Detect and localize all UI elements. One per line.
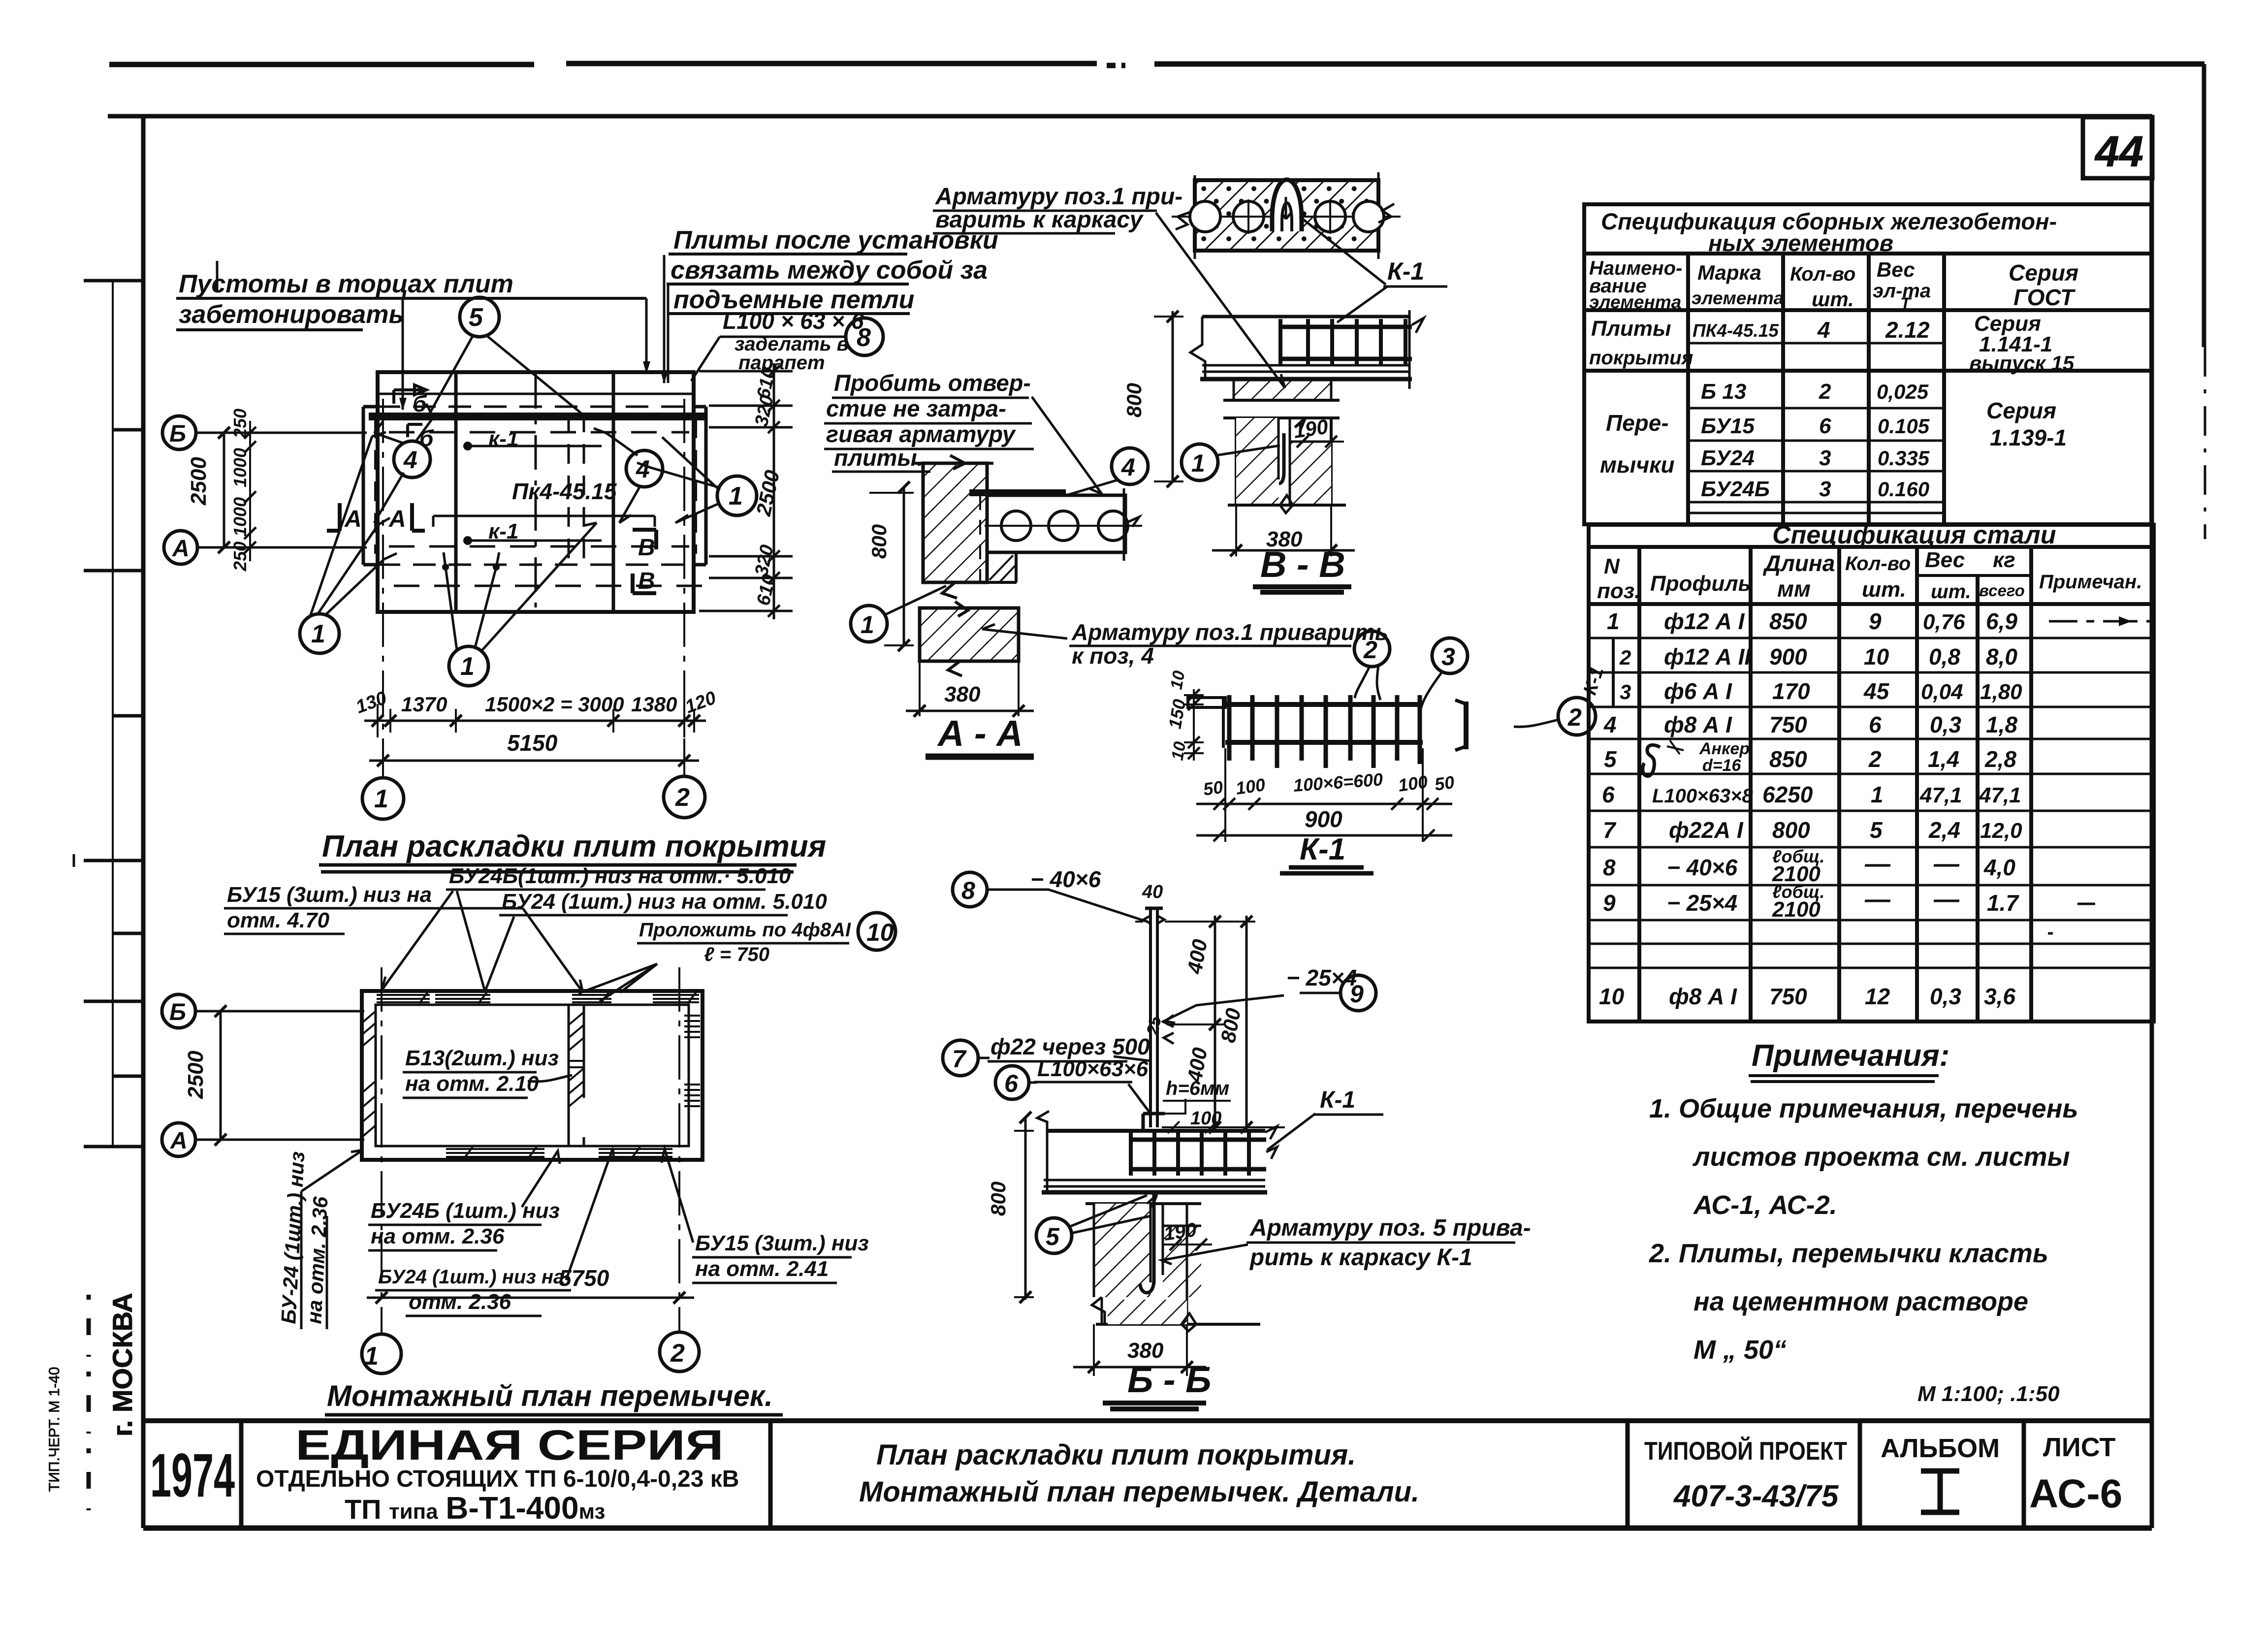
svg-text:1,4: 1,4 bbox=[1928, 746, 1959, 772]
svg-text:− 25×4: − 25×4 bbox=[1286, 965, 1357, 990]
circle 8 + leader bbox=[953, 872, 987, 907]
svg-text:ЛИСТ: ЛИСТ bbox=[2043, 1433, 2115, 1462]
DETK1 : reinforcement cage К-1 bbox=[1184, 631, 1596, 842]
left grid circles bbox=[162, 994, 195, 1028]
svg-text:5: 5 bbox=[469, 303, 483, 332]
svg-text:мм: мм bbox=[1777, 576, 1811, 602]
svg-text:1: 1 bbox=[1871, 782, 1884, 807]
svg-text:Б13(2шт.) низ: Б13(2шт.) низ bbox=[405, 1046, 559, 1070]
T profile section bbox=[1464, 702, 1469, 749]
dimension row 1 bbox=[364, 720, 706, 722]
svg-text:1: 1 bbox=[729, 482, 743, 511]
svg-text:ф8 А I: ф8 А I bbox=[1664, 712, 1732, 737]
slab with cores bbox=[969, 489, 1066, 496]
svg-text:ных элементов: ных элементов bbox=[1708, 230, 1893, 256]
left angle end bbox=[1188, 698, 1225, 748]
svg-text:2100: 2100 bbox=[1772, 897, 1821, 922]
svg-text:7: 7 bbox=[952, 1045, 967, 1073]
svg-text:2. Плиты, перемычки класть: 2. Плиты, перемычки класть bbox=[1649, 1239, 2048, 1268]
heavy angle line L100x63x6 bbox=[369, 413, 706, 420]
grid axis verticals bbox=[381, 967, 383, 1333]
extra small marks near fold line bbox=[74, 261, 217, 867]
svg-text:Профиль: Профиль bbox=[1650, 572, 1751, 596]
svg-text:шт.: шт. bbox=[1862, 577, 1906, 602]
svg-text:4: 4 bbox=[636, 455, 650, 483]
190 dim bbox=[1163, 1244, 1212, 1245]
PLAN2TEXT bbox=[169, 864, 895, 1371]
svg-text:12: 12 bbox=[1865, 984, 1890, 1009]
svg-text:1000: 1000 bbox=[230, 448, 250, 487]
lower wall hatched bbox=[920, 608, 1019, 661]
PLAN1TEXT bbox=[169, 226, 998, 872]
svg-text:К-1: К-1 bbox=[1320, 1087, 1355, 1113]
svg-text:Монтажный план перемычек.: Монтажный план перемычек. bbox=[327, 1379, 773, 1412]
380 dim bbox=[920, 661, 1019, 716]
svg-text:900: 900 bbox=[1769, 644, 1807, 670]
svg-text:45: 45 bbox=[1863, 678, 1890, 704]
svg-text:БУ24Б (1шт.) низ: БУ24Б (1шт.) низ bbox=[371, 1199, 560, 1223]
svg-text:Арматуру поз. 5 прива-: Арматуру поз. 5 прива- bbox=[1249, 1215, 1531, 1241]
svg-text:407-3-43/75: 407-3-43/75 bbox=[1673, 1479, 1839, 1513]
svg-text:мычки: мычки bbox=[1600, 452, 1675, 478]
svg-text:связать между собой за: связать между собой за bbox=[671, 256, 988, 285]
svg-text:250: 250 bbox=[230, 409, 250, 439]
svg-text:Спецификация стали: Спецификация стали bbox=[1772, 521, 2056, 549]
svg-text:Монтажный план перемычек. Д: Монтажный план перемычек. Детали. bbox=[859, 1476, 1419, 1508]
svg-text:А - А: А - А bbox=[937, 713, 1023, 754]
svg-text:Длина: Длина bbox=[1762, 550, 1835, 576]
svg-text:Т: Т bbox=[1900, 294, 1912, 313]
svg-text:Б - Б: Б - Б bbox=[1127, 1359, 1212, 1400]
svg-text:1: 1 bbox=[1191, 449, 1205, 477]
parapet post bbox=[1150, 908, 1157, 1127]
svg-text:44: 44 bbox=[2094, 127, 2143, 176]
svg-text:на отм. 2.41: на отм. 2.41 bbox=[695, 1257, 829, 1281]
svg-text:Б: Б bbox=[169, 999, 186, 1025]
lintel groups top band bbox=[377, 995, 430, 1002]
svg-text:L100×63×6: L100×63×6 bbox=[1037, 1057, 1149, 1081]
svg-text:БУ24: БУ24 bbox=[1701, 446, 1755, 470]
svg-text:БУ15: БУ15 bbox=[1701, 414, 1755, 438]
svg-text:кг: кг bbox=[1993, 548, 2015, 572]
svg-text:50: 50 bbox=[1433, 772, 1455, 795]
svg-text:1. Общие примечания, переч: 1. Общие примечания, перечень bbox=[1649, 1094, 2078, 1123]
svg-text:250: 250 bbox=[230, 542, 250, 572]
circles bbox=[1354, 631, 1390, 667]
svg-text:6: 6 bbox=[1004, 1070, 1019, 1097]
inner dashed lines bbox=[389, 431, 689, 434]
PANELBAND bbox=[0, 0, 0, 0]
PLAN1 : План раскладки плит покрытия bbox=[162, 255, 883, 819]
patch below slab bbox=[987, 552, 1017, 582]
wall outline (partly dashed) bbox=[363, 407, 706, 565]
svg-text:Проложить по 4ф8АI: Проложить по 4ф8АI bbox=[639, 919, 851, 941]
wall bottom bbox=[1228, 504, 1346, 507]
svg-text:ЕДИНАЯ СЕРИЯ: ЕДИНАЯ СЕРИЯ bbox=[295, 1422, 724, 1469]
weld mark leader h=6mm bbox=[1157, 1099, 1185, 1114]
svg-text:2500: 2500 bbox=[184, 1051, 208, 1099]
grid axis dash-dot verticals bbox=[382, 399, 384, 778]
svg-text:А: А bbox=[344, 506, 362, 532]
svg-text:А: А bbox=[172, 536, 190, 562]
svg-text:5: 5 bbox=[1870, 817, 1883, 843]
circle 7 + leader bbox=[943, 1040, 978, 1076]
svg-text:0.160: 0.160 bbox=[1878, 478, 1929, 501]
svg-text:47,1: 47,1 bbox=[1979, 783, 2021, 807]
svg-text:отм. 4.70: отм. 4.70 bbox=[227, 908, 330, 932]
svg-text:ТИП.ЧЕРТ. М 1-40: ТИП.ЧЕРТ. М 1-40 bbox=[46, 1367, 63, 1492]
-25x4 bar leader + circle 9 bbox=[1341, 975, 1376, 1011]
svg-text:100: 100 bbox=[1234, 774, 1266, 798]
svg-text:380: 380 bbox=[944, 682, 981, 706]
svg-text:2: 2 bbox=[675, 783, 690, 812]
svg-text:6250: 6250 bbox=[1762, 782, 1813, 807]
upper wall hatched bbox=[923, 463, 987, 582]
svg-text:100: 100 bbox=[1397, 771, 1429, 796]
380 dim bbox=[1094, 1324, 1187, 1376]
left vertical dim 800 bbox=[1172, 311, 1174, 481]
svg-text:гивая арматуру: гивая арматуру bbox=[826, 421, 1017, 447]
svg-text:Вес: Вес bbox=[1925, 548, 1965, 572]
PLAN2 : Монтажный план перемычек bbox=[162, 967, 703, 1373]
svg-text:1000: 1000 bbox=[230, 497, 250, 537]
svg-text:7: 7 bbox=[1603, 817, 1617, 843]
svg-text:3: 3 bbox=[1819, 477, 1831, 501]
upper wall strip bbox=[1234, 380, 1331, 400]
svg-text:1370: 1370 bbox=[401, 693, 447, 716]
dim line 1 bbox=[1196, 803, 1452, 805]
K-1 cage position lines bbox=[468, 446, 602, 541]
bottom grid circles bbox=[362, 1334, 401, 1373]
5750 dim bbox=[367, 1297, 694, 1299]
inner wall rect bbox=[376, 1005, 689, 1146]
right wall lintel groups bbox=[684, 1016, 700, 1037]
svg-text:6: 6 bbox=[1869, 712, 1882, 737]
svg-text:800: 800 bbox=[1772, 817, 1810, 843]
svg-text:ℓ = 750: ℓ = 750 bbox=[704, 944, 769, 965]
svg-text:8: 8 bbox=[857, 323, 871, 352]
SECTAA : section А-А bbox=[851, 448, 1148, 717]
svg-text:2: 2 bbox=[1363, 636, 1377, 664]
circle 5 + leaders bbox=[1036, 1218, 1072, 1253]
svg-text:1: 1 bbox=[1607, 608, 1620, 634]
svg-text:на цементном растворе: на цементном растворе bbox=[1693, 1287, 2028, 1316]
svg-text:—: — bbox=[1864, 885, 1891, 914]
svg-text:К-1: К-1 bbox=[1387, 257, 1424, 285]
svg-text:2: 2 bbox=[670, 1339, 685, 1368]
svg-text:10: 10 bbox=[1167, 669, 1188, 691]
anchor slot hook bbox=[1279, 433, 1284, 483]
svg-text:9: 9 bbox=[1869, 608, 1882, 634]
dim line 2 : 900 bbox=[1196, 834, 1452, 837]
svg-text:8: 8 bbox=[1603, 855, 1616, 880]
svg-text:1: 1 bbox=[460, 652, 475, 681]
svg-text:Плиты: Плиты bbox=[1591, 317, 1671, 341]
svg-text:0,04: 0,04 bbox=[1921, 680, 1963, 704]
TABLE2 : Спецификация стали bbox=[1580, 521, 2154, 1021]
svg-text:750: 750 bbox=[1769, 984, 1807, 1009]
svg-text:АЛЬБОМ: АЛЬБОМ bbox=[1881, 1434, 2000, 1463]
svg-text:4: 4 bbox=[1817, 317, 1830, 343]
svg-text:2500: 2500 bbox=[187, 457, 211, 506]
circle 1 bbox=[1182, 444, 1218, 480]
svg-text:0,3: 0,3 bbox=[1930, 712, 1961, 737]
svg-text:2,4: 2,4 bbox=[1928, 817, 1960, 843]
wall below slab bbox=[1086, 1202, 1201, 1205]
plate joints bbox=[456, 372, 613, 612]
В section flags bbox=[633, 530, 656, 593]
post to slab connection: angle bbox=[1143, 1114, 1165, 1131]
outer top border line (broken) bbox=[109, 64, 2204, 65]
svg-text:750: 750 bbox=[1769, 712, 1807, 737]
svg-text:10: 10 bbox=[1599, 984, 1625, 1009]
svg-text:ф22А I: ф22А I bbox=[1669, 817, 1744, 843]
svg-text:забетонировать: забетонировать bbox=[179, 300, 404, 329]
svg-text:4: 4 bbox=[1121, 453, 1135, 481]
svg-text:10: 10 bbox=[866, 919, 894, 946]
svg-text:8: 8 bbox=[961, 877, 975, 904]
svg-text:1.7: 1.7 bbox=[1987, 890, 2019, 916]
svg-text:всего: всего bbox=[1979, 581, 2025, 600]
left chain dims bbox=[249, 421, 251, 561]
circle 4 with leader bbox=[1112, 448, 1148, 484]
svg-text:0.105: 0.105 bbox=[1878, 415, 1930, 438]
svg-text:− 40×6: − 40×6 bbox=[1030, 866, 1101, 892]
svg-text:1974: 1974 bbox=[150, 1441, 235, 1510]
svg-text:2,8: 2,8 bbox=[1984, 746, 2016, 772]
svg-text:1,8: 1,8 bbox=[1986, 712, 2017, 737]
svg-text:М 1:100; .1:50: М 1:100; .1:50 bbox=[1917, 1382, 2060, 1406]
svg-text:Пере-: Пере- bbox=[1606, 410, 1669, 436]
rails bbox=[1225, 702, 1423, 707]
svg-text:АС-1, АС-2.: АС-1, АС-2. bbox=[1693, 1190, 1837, 1220]
SECTVV : section В-В bbox=[1154, 310, 1424, 556]
inner frame bbox=[108, 114, 2152, 119]
svg-text:элемента: элемента bbox=[1589, 292, 1681, 312]
svg-text:900: 900 bbox=[1305, 806, 1342, 832]
svg-text:А: А bbox=[170, 1128, 188, 1154]
svg-text:на отм. 2.36: на отм. 2.36 bbox=[371, 1224, 505, 1248]
svg-text:Б 13: Б 13 bbox=[1701, 380, 1746, 404]
K-1 group bracket rows 2-3 bbox=[1612, 638, 1615, 707]
svg-text:40: 40 bbox=[1142, 882, 1163, 902]
slab bbox=[1047, 1129, 1265, 1133]
svg-text:1: 1 bbox=[861, 611, 874, 638]
leaders from markers bbox=[429, 336, 583, 415]
svg-text:d=16: d=16 bbox=[1702, 756, 1742, 775]
cross bars bbox=[1229, 695, 1420, 768]
svg-text:2: 2 bbox=[1819, 380, 1831, 404]
svg-text:ф12 А I: ф12 А I bbox=[1664, 608, 1745, 634]
svg-text:рить к каркасу К-1: рить к каркасу К-1 bbox=[1249, 1245, 1472, 1271]
svg-text:L100 × 63 × 6: L100 × 63 × 6 bbox=[723, 308, 864, 334]
anchor sketch row 5 bbox=[1643, 745, 1660, 776]
svg-text:1: 1 bbox=[311, 620, 325, 648]
svg-text:Примечания:: Примечания: bbox=[1752, 1039, 1949, 1073]
left fold line bbox=[112, 281, 114, 1147]
svg-text:800: 800 bbox=[867, 524, 891, 559]
svg-text:5: 5 bbox=[1046, 1223, 1060, 1250]
svg-text:N: N bbox=[1604, 554, 1620, 578]
svg-text:10: 10 bbox=[1864, 644, 1889, 670]
svg-text:1,80: 1,80 bbox=[1980, 680, 2022, 704]
left vertical dim 800 bbox=[903, 487, 905, 645]
100 dim under post bbox=[1162, 1121, 1217, 1133]
svg-text:В: В bbox=[638, 535, 655, 561]
2500 dim bbox=[220, 1011, 222, 1140]
svg-text:100: 100 bbox=[1190, 1108, 1221, 1129]
svg-text:Кол-во: Кол-во bbox=[1790, 263, 1855, 285]
bottom extension verticals bbox=[1225, 748, 1423, 842]
svg-text:к-1: к-1 bbox=[488, 519, 518, 543]
TABLE1 : Спецификация сборных железобетонных элементов bbox=[1584, 204, 2151, 524]
svg-text:листов проекта см. листы: листов проекта см. листы bbox=[1692, 1142, 2070, 1172]
lifting loop bbox=[1272, 180, 1302, 231]
svg-text:ф8 А I: ф8 А I bbox=[1669, 984, 1737, 1009]
outer right border line bbox=[2202, 64, 2206, 347]
svg-text:190: 190 bbox=[1162, 1219, 1198, 1245]
svg-text:5150: 5150 bbox=[507, 730, 558, 756]
svg-text:ф22 через 500: ф22 через 500 bbox=[990, 1034, 1150, 1059]
svg-text:850: 850 bbox=[1769, 608, 1807, 634]
svg-text:25: 25 bbox=[1143, 1014, 1165, 1037]
svg-text:М „ 50“: М „ 50“ bbox=[1693, 1335, 1787, 1365]
left grid circles bbox=[162, 416, 196, 449]
svg-text:БУ15 (3шт.) низ на: БУ15 (3шт.) низ на bbox=[227, 883, 432, 907]
partition wall bbox=[569, 1005, 584, 1146]
svg-text:2: 2 bbox=[1868, 746, 1882, 772]
svg-text:План раскладки плит покрыти: План раскладки плит покрытия bbox=[322, 830, 826, 863]
svg-text:1.139-1: 1.139-1 bbox=[1990, 425, 2067, 450]
slab top line bbox=[1202, 315, 1409, 319]
svg-text:3: 3 bbox=[1620, 680, 1631, 703]
800 left dim bbox=[1024, 1117, 1027, 1300]
svg-text:10: 10 bbox=[1168, 740, 1189, 762]
svg-text:—: — bbox=[1933, 850, 1960, 878]
svg-text:Серия: Серия bbox=[1986, 398, 2056, 423]
svg-text:6,9: 6,9 bbox=[1986, 608, 2017, 634]
svg-text:50: 50 bbox=[1202, 777, 1224, 799]
dotted vertical line bottom-left bbox=[87, 1295, 91, 1514]
svg-text:1: 1 bbox=[364, 1342, 379, 1371]
svg-text:170: 170 bbox=[1772, 678, 1810, 704]
svg-text:1380: 1380 bbox=[631, 693, 677, 716]
svg-text:А: А bbox=[388, 506, 406, 532]
svg-text:47,1: 47,1 bbox=[1919, 783, 1962, 807]
svg-text:Арматуру поз.1 приварить: Арматуру поз.1 приварить bbox=[1071, 619, 1388, 645]
svg-text:ф6 А I: ф6 А I bbox=[1664, 678, 1732, 704]
svg-text:К-1: К-1 bbox=[1300, 832, 1345, 866]
circle 1 bbox=[851, 606, 887, 642]
bottom grid circles bbox=[362, 778, 404, 819]
svg-text:—: — bbox=[1933, 885, 1960, 914]
lower wall bbox=[1223, 416, 1340, 419]
svg-text:L100×63×8: L100×63×8 bbox=[1652, 785, 1753, 807]
svg-text:2: 2 bbox=[1567, 703, 1582, 731]
svg-text:3: 3 bbox=[1819, 446, 1831, 470]
svg-text:2: 2 bbox=[1619, 646, 1631, 669]
svg-text:190: 190 bbox=[1292, 415, 1330, 443]
left wall hatch bbox=[362, 1011, 376, 1047]
svg-text:отм. 2.36: отм. 2.36 bbox=[409, 1290, 511, 1314]
svg-text:3,6: 3,6 bbox=[1984, 984, 2015, 1009]
hidden partition (dashed verticals) bbox=[569, 413, 584, 561]
svg-text:0.335: 0.335 bbox=[1878, 447, 1930, 470]
PLAN1TEXT bbox=[0, 0, 0, 0]
svg-text:0,8: 0,8 bbox=[1929, 644, 1960, 670]
svg-text:В: В bbox=[638, 568, 655, 594]
svg-text:выпуск 15: выпуск 15 bbox=[1969, 351, 2075, 375]
svg-text:ОТДЕЛЬНО СТОЯЩИХ ТП 6-10/0,4-: ОТДЕЛЬНО СТОЯЩИХ ТП 6-10/0,4-0,23 кВ bbox=[256, 1466, 739, 1492]
svg-text:б: б bbox=[413, 391, 427, 416]
svg-text:элемента: элемента bbox=[1692, 288, 1784, 308]
bottom band lintel groups bbox=[446, 1149, 544, 1157]
left break zigzag bbox=[1190, 317, 1205, 379]
edge zigzags bbox=[1176, 204, 1394, 229]
anchor through wall bbox=[1140, 1192, 1154, 1293]
svg-text:850: 850 bbox=[1769, 746, 1807, 772]
svg-text:Пробить отвер-: Пробить отвер- bbox=[834, 370, 1031, 396]
svg-text:Пустоты в торцах плит: Пустоты в торцах плит bbox=[179, 270, 513, 298]
svg-text:6: 6 bbox=[1819, 414, 1831, 438]
right side dims of plan1 bbox=[699, 363, 793, 619]
svg-text:Примечан.: Примечан. bbox=[2039, 571, 2142, 593]
bracket under ПК4-45.15 bbox=[433, 516, 655, 527]
190 dim bbox=[1290, 441, 1344, 443]
page number box bbox=[2083, 117, 2152, 178]
left small dims 10/150/10 bbox=[1193, 689, 1195, 761]
right dim chains bbox=[1167, 922, 1285, 1127]
TITLEBLOCK bbox=[143, 1379, 2152, 1528]
outer wall rect bbox=[362, 991, 703, 1160]
dash-dot arrow in note col row1 bbox=[2049, 620, 2150, 623]
svg-text:на отм. 2.10: на отм. 2.10 bbox=[405, 1072, 539, 1096]
svg-text:БУ24 (1шт.) низ на отм. 5.01: БУ24 (1шт.) низ на отм. 5.010 bbox=[502, 890, 827, 914]
svg-text:2.12: 2.12 bbox=[1885, 317, 1930, 343]
svg-text:− 25×4: − 25×4 bbox=[1667, 890, 1737, 916]
PANELBAND : precast panel section with lifting loop bbox=[1172, 172, 1401, 259]
svg-text:1500×2 = 3000: 1500×2 = 3000 bbox=[485, 693, 624, 716]
svg-text:Пк4-45.15: Пк4-45.15 bbox=[512, 479, 617, 504]
svg-text:9: 9 bbox=[1603, 890, 1616, 916]
svg-text:ПК4-45.15: ПК4-45.15 bbox=[1693, 320, 1779, 341]
DETK1 bbox=[0, 0, 0, 0]
svg-text:4,0: 4,0 bbox=[1983, 855, 2015, 880]
svg-text:0,3: 0,3 bbox=[1930, 984, 1961, 1009]
svg-text:ГОСТ: ГОСТ bbox=[2013, 285, 2076, 310]
svg-text:шт.: шт. bbox=[1812, 287, 1854, 311]
svg-text:поз.: поз. bbox=[1597, 579, 1640, 603]
svg-text:БУ24 (1шт.) низ на: БУ24 (1шт.) низ на bbox=[378, 1266, 564, 1288]
svg-text:БУ24Б(1шт.) низ на отм.· 5.0: БУ24Б(1шт.) низ на отм.· 5.010 bbox=[449, 864, 791, 888]
svg-text:800: 800 bbox=[987, 1181, 1010, 1216]
svg-text:800: 800 bbox=[1122, 383, 1146, 417]
plate outline bbox=[378, 372, 694, 612]
svg-text:покрытия: покрытия bbox=[1589, 347, 1693, 369]
svg-text:г. МОСКВА: г. МОСКВА bbox=[107, 1293, 138, 1436]
svg-text:—: — bbox=[1864, 850, 1891, 878]
left vertical dim 2500 bbox=[223, 433, 225, 547]
svg-text:1: 1 bbox=[374, 785, 388, 813]
svg-text:6: 6 bbox=[1602, 782, 1615, 807]
PLAN2TEXT bbox=[0, 0, 0, 0]
А section flags bbox=[327, 503, 425, 531]
svg-text:8,0: 8,0 bbox=[1986, 644, 2017, 670]
svg-text:5: 5 bbox=[1604, 746, 1617, 772]
svg-text:В - В: В - В bbox=[1260, 544, 1345, 585]
svg-text:стие не затра-: стие не затра- bbox=[826, 395, 1006, 421]
svg-text:АС-6: АС-6 bbox=[2029, 1471, 2122, 1516]
